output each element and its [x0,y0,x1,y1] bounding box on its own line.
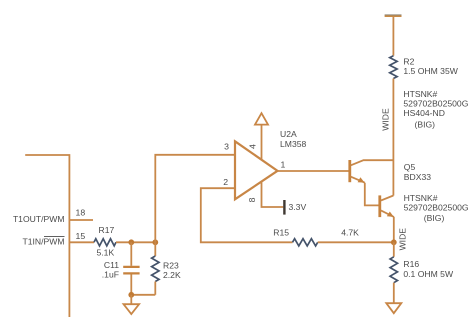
Q5a emitter [351,177,365,183]
Q5b collector [381,196,394,201]
wire op-amp output pin 1 to Q5 base [278,170,349,172]
svg-text:8: 8 [247,197,257,202]
bottom wire C11/R23 [131,294,155,296]
svg-text:R15: R15 [273,228,289,238]
left IC outline [25,155,69,317]
svg-text:LM358: LM358 [280,139,306,149]
ground right [386,303,401,313]
svg-text:0.1 OHM 5W: 0.1 OHM 5W [403,269,454,279]
junction ground node [128,292,134,298]
svg-text:T1IN/PWM: T1IN/PWM [22,236,64,246]
wire op-amp pin 2 feedback [201,188,293,242]
svg-text:(BIG): (BIG) [415,120,436,130]
pin 8 power [262,181,284,207]
resistor R15 [293,239,318,246]
svg-text:Q5: Q5 [404,162,416,172]
junction R23 top [152,239,158,245]
svg-text:R16: R16 [403,259,419,269]
svg-text:3: 3 [224,142,229,152]
svg-text:WIDE: WIDE [398,228,408,251]
svg-text:1.5 OHM 35W: 1.5 OHM 35W [403,66,458,76]
svg-text:(BIG): (BIG) [424,213,445,223]
svg-text:1: 1 [281,160,286,170]
resistor R17 [94,239,116,246]
resistor R2 [390,56,397,79]
svg-text:3.3V: 3.3V [289,202,307,212]
svg-text:5.1K: 5.1K [97,247,115,257]
svg-text:R23: R23 [163,260,179,270]
wire R17 to node [116,241,155,243]
rail to collectors [392,79,394,196]
svg-text:.1uF: .1uF [102,270,119,280]
svg-text:U2A: U2A [280,129,297,139]
resistor R16 [393,242,395,256]
pin 15 wire [69,241,94,243]
svg-text:529702B02500G: 529702B02500G [404,202,469,212]
transistor Q5 second stage [378,195,381,217]
Q5b emitter [381,210,394,217]
op-amp U2A [235,141,278,199]
svg-text:R17: R17 [99,225,115,235]
svg-text:4.7K: 4.7K [341,228,359,238]
capacitor C11 [130,242,132,265]
svg-text:2: 2 [223,177,228,187]
3.3V terminal bar [283,200,285,215]
svg-text:BDX33: BDX33 [404,172,431,182]
power arrow [255,113,268,124]
svg-text:T1OUT/PWM: T1OUT/PWM [13,214,65,224]
svg-text:HS404-ND: HS404-ND [403,108,445,118]
svg-text:18: 18 [76,208,86,218]
svg-text:2.2K: 2.2K [163,270,181,280]
power terminal bar top [385,14,402,15]
pin 18 stub [69,219,93,221]
svg-text:15: 15 [76,231,86,241]
wire node to op-amp pin 3 [155,155,235,243]
wire R15 to emitter node [318,241,394,243]
junction C11 tap [128,239,134,245]
junction emitter node [391,239,397,245]
ground [130,295,132,304]
Q5a collector [351,160,394,165]
resistor R23 [154,242,156,256]
svg-text:529702B02500G: 529702B02500G [403,98,468,108]
pin 4 power [261,124,263,159]
svg-text:4: 4 [248,144,258,149]
svg-text:WIDE: WIDE [380,108,390,131]
transistor Q5 first stage [348,160,351,182]
rail top [392,17,394,56]
